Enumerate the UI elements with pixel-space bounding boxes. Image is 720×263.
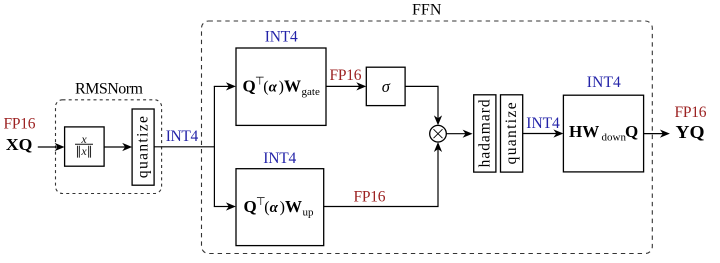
wire XQ -> norm box bbox=[38, 146, 58, 148]
sigma box bbox=[366, 67, 405, 105]
svg-text:Q: Q bbox=[243, 76, 256, 95]
norm box x/||x|| bbox=[65, 127, 105, 166]
up box Q^T(a)W_up bbox=[236, 169, 324, 246]
quantize box (FFN) bbox=[501, 95, 523, 172]
wire quantize -> HW box bbox=[523, 133, 557, 135]
quantize box (RMSNorm) bbox=[132, 109, 154, 185]
svg-text:α: α bbox=[269, 79, 278, 95]
hadamard box bbox=[474, 95, 496, 172]
wire norm box -> quantize (RMSNorm) bbox=[104, 146, 126, 148]
RMSNorm dashed container box bbox=[56, 100, 162, 194]
svg-text:XQ: XQ bbox=[6, 135, 33, 154]
svg-text:INT4: INT4 bbox=[265, 28, 298, 45]
multiply node (circle-times) bbox=[430, 125, 447, 142]
wire up box -> multiply (right then up) bbox=[324, 149, 438, 207]
svg-text:FP16: FP16 bbox=[354, 188, 386, 205]
svg-text:W: W bbox=[285, 197, 302, 216]
svg-text:down: down bbox=[602, 132, 627, 144]
svg-text:FP16: FP16 bbox=[330, 67, 362, 84]
wire sigma -> multiply (right then down) bbox=[405, 86, 438, 118]
wire branch vertical bbox=[213, 86, 215, 206]
svg-text:YQ: YQ bbox=[676, 122, 705, 142]
svg-text:HW: HW bbox=[569, 122, 599, 141]
svg-text:∥x∥: ∥x∥ bbox=[75, 144, 92, 158]
svg-text:FP16: FP16 bbox=[675, 104, 707, 121]
svg-text:INT4: INT4 bbox=[526, 115, 560, 132]
HW box HW_down Q bbox=[563, 95, 643, 172]
gate box Q^T(a)W_gate bbox=[236, 48, 326, 125]
wire branch -> gate box bbox=[214, 85, 230, 87]
svg-text:up: up bbox=[303, 207, 315, 219]
wire branch -> up box bbox=[214, 206, 230, 208]
svg-text:RMSNorm: RMSNorm bbox=[75, 81, 144, 98]
svg-text:quantize: quantize bbox=[135, 116, 152, 178]
wire quantize -> branch node bbox=[154, 146, 214, 148]
svg-text:INT4: INT4 bbox=[587, 74, 621, 91]
svg-text:INT4: INT4 bbox=[263, 150, 296, 167]
svg-text:gate: gate bbox=[302, 86, 320, 98]
svg-text:α: α bbox=[270, 200, 279, 216]
svg-text:quantize: quantize bbox=[503, 102, 520, 164]
FFN dashed container box bbox=[202, 21, 653, 254]
svg-text:Q: Q bbox=[244, 197, 257, 216]
svg-text:W: W bbox=[284, 76, 301, 95]
wire gate -> sigma bbox=[326, 85, 360, 87]
svg-text:INT4: INT4 bbox=[166, 128, 199, 145]
svg-text:Q: Q bbox=[625, 122, 638, 141]
svg-text:FFN: FFN bbox=[412, 1, 442, 18]
wire HW box -> output bbox=[644, 133, 664, 135]
svg-text:hadamard: hadamard bbox=[476, 99, 493, 167]
wire multiply -> hadamard bbox=[446, 133, 466, 135]
svg-text:σ: σ bbox=[382, 77, 391, 96]
svg-text:FP16: FP16 bbox=[4, 115, 36, 132]
